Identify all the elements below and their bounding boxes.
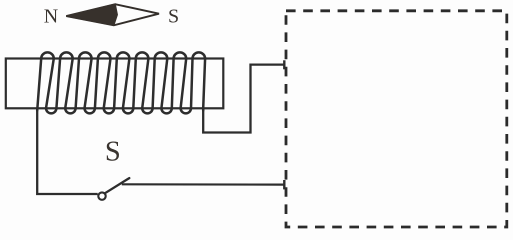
compass needle outline [66, 4, 159, 25]
compass needle filled N half [66, 4, 117, 25]
wire left lead from coil down to switch [37, 109, 97, 194]
terminal tick bottom [283, 180, 285, 189]
wire from switch fixed contact to dashed box [122, 183, 284, 186]
wire right lead from coil to dashed box [203, 65, 284, 133]
solenoid core rectangle [6, 59, 224, 109]
svg-text:S: S [105, 137, 121, 168]
terminal tick top [283, 60, 285, 69]
switch S lever (open) [105, 178, 129, 193]
svg-text:N: N [44, 5, 58, 27]
switch S pivot [98, 192, 105, 199]
dashed box (hidden circuit region) [286, 11, 507, 227]
svg-text:S: S [168, 6, 179, 28]
coil L1 winding [37, 52, 205, 113]
